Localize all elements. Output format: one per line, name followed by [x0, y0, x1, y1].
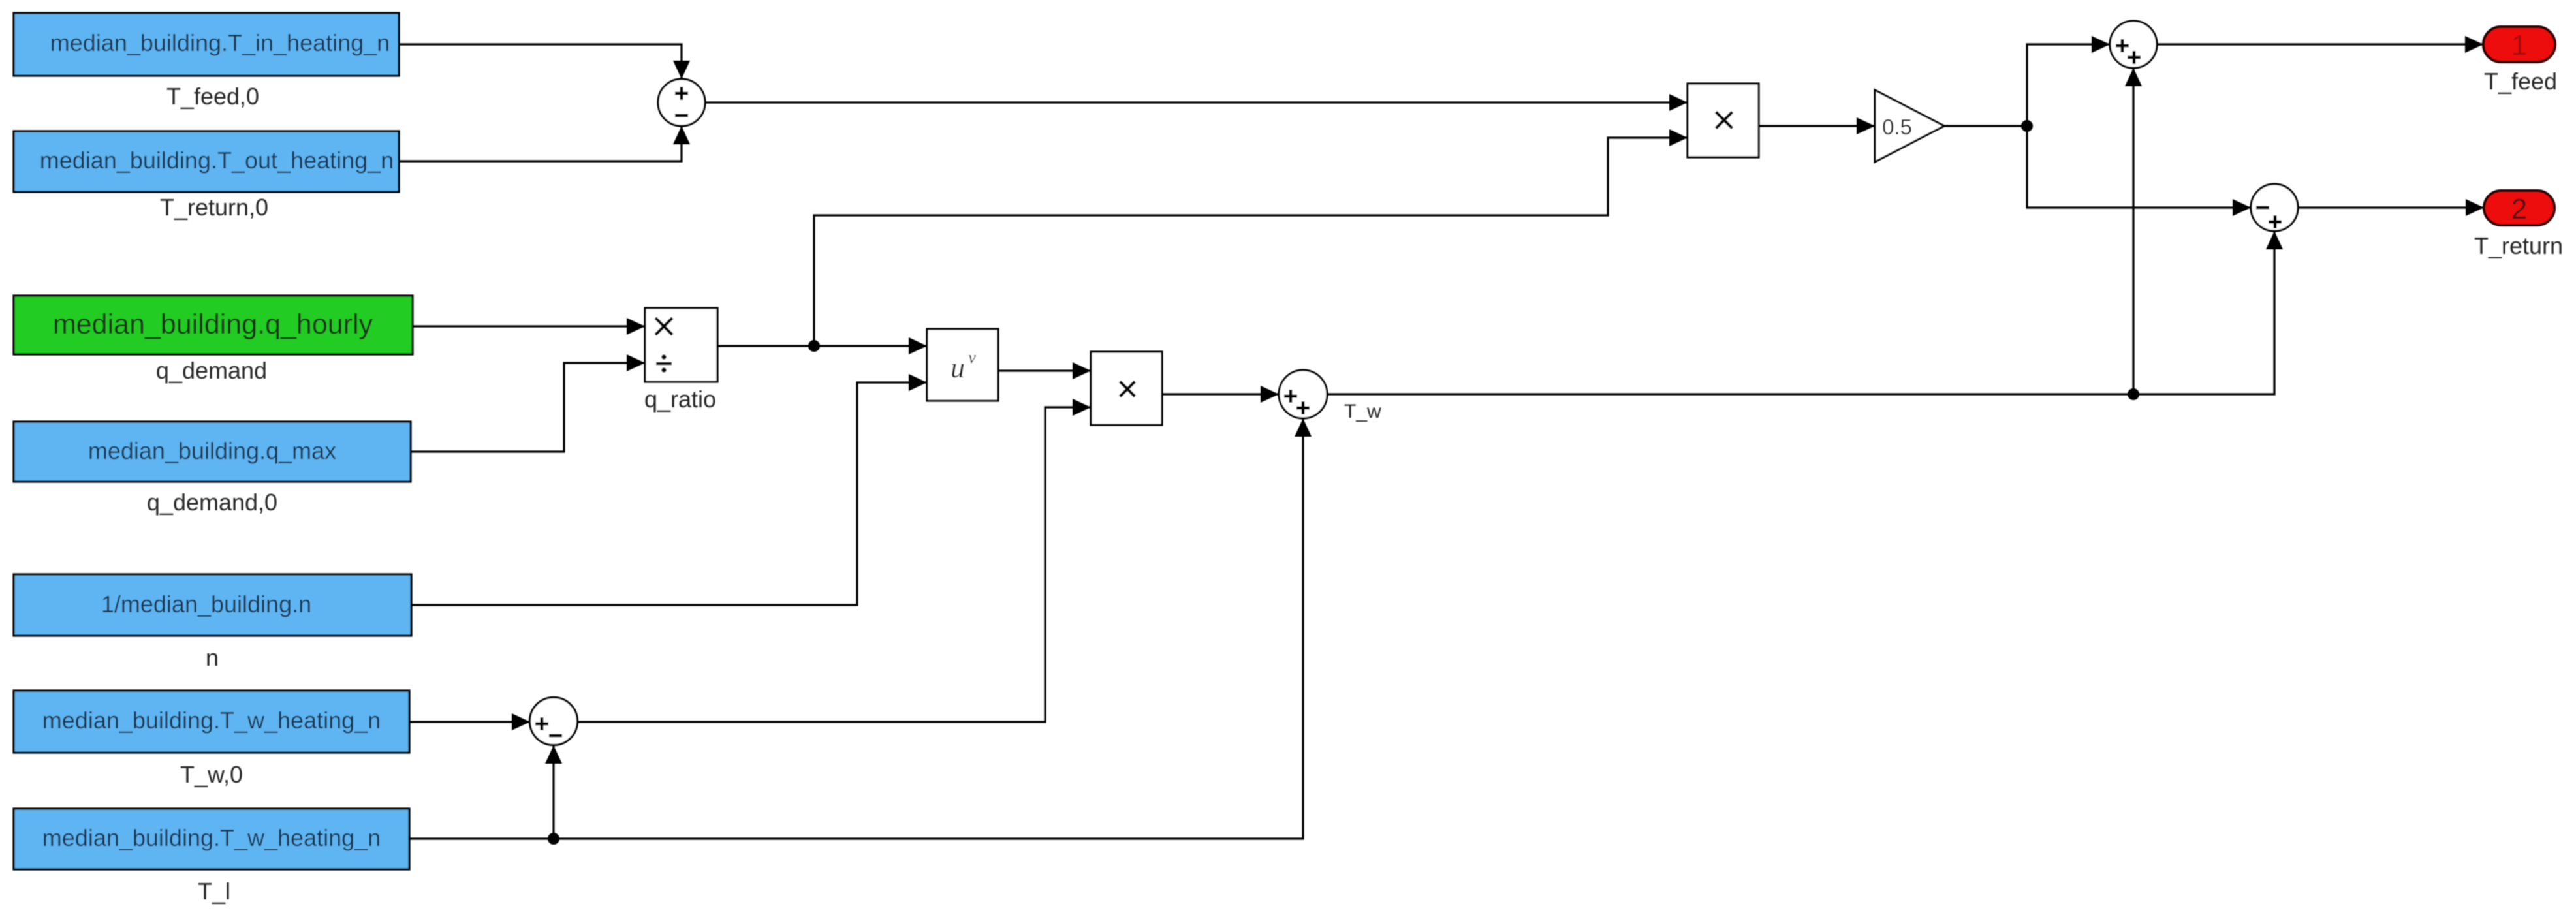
svg-text:T_w: T_w	[1344, 401, 1381, 422]
svg-text:median_building.T_w_heating_n: median_building.T_w_heating_n	[42, 707, 381, 734]
svg-text:n: n	[206, 644, 219, 671]
svg-text:T_return,0: T_return,0	[160, 194, 268, 221]
svg-text:T_l: T_l	[198, 878, 230, 905]
svg-text:T_w,0: T_w,0	[180, 761, 243, 788]
svg-text:q_demand,0: q_demand,0	[147, 489, 277, 516]
svg-text:0.5: 0.5	[1882, 115, 1912, 139]
svg-text:median_building.q_max: median_building.q_max	[88, 437, 336, 464]
svg-text:1: 1	[2511, 29, 2527, 61]
svg-text:median_building.q_hourly: median_building.q_hourly	[53, 309, 373, 340]
svg-text:median_building.T_w_heating_n: median_building.T_w_heating_n	[42, 824, 381, 851]
svg-text:T_feed,0: T_feed,0	[166, 83, 259, 110]
svg-text:2: 2	[2511, 193, 2527, 225]
svg-text:T_return: T_return	[2474, 232, 2563, 259]
svg-text:q_demand: q_demand	[156, 357, 267, 384]
svg-text:v: v	[968, 348, 976, 367]
svg-text:1/median_building.n: 1/median_building.n	[101, 591, 311, 617]
svg-text:median_building.T_out_heating_: median_building.T_out_heating_n	[40, 147, 394, 174]
svg-text:T_feed: T_feed	[2484, 68, 2557, 95]
svg-text:median_building.T_in_heating_n: median_building.T_in_heating_n	[50, 29, 390, 56]
svg-text:q_ratio: q_ratio	[644, 386, 716, 413]
svg-text:u: u	[950, 352, 965, 384]
